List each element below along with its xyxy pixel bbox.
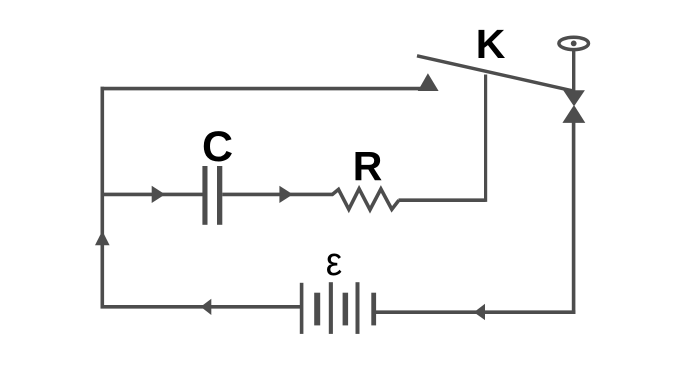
switch contact arrowhead down [563,90,585,106]
switch pivot terminal dot [571,41,577,47]
battery plate 1 long [300,283,304,334]
svg-text:C: C [202,123,233,171]
wire: switch lower vertical [484,75,487,202]
wire: top horizontal [101,87,434,91]
capacitor C left plate [202,166,207,225]
wire: bottom left (battery to node) [101,305,301,309]
resistor R zigzag [332,189,399,210]
switch contact arrowhead up [562,105,585,123]
wire: right vertical [572,123,576,315]
battery plate 4 short [343,293,349,326]
switch K lever [417,56,573,91]
wire: capacitor to resistor [222,193,333,197]
wire: bottom right (corner to battery) [376,310,575,314]
arrowhead right on middle wire after capacitor [279,186,293,203]
svg-text:ε: ε [326,240,343,284]
arrowhead left on bottom left wire [201,299,212,315]
battery plate 3 long [329,282,333,334]
switch pivot terminal stem [572,50,575,91]
wire: middle left (node to capacitor) [102,193,203,197]
battery plate 6 short [371,293,376,326]
wire: left vertical branch [101,87,105,309]
capacitor C right plate [217,166,222,225]
svg-text:K: K [476,21,506,67]
arrowhead up at end of top wire [418,73,439,91]
svg-text:R: R [353,143,383,189]
switch pivot terminal ellipse [559,37,589,49]
arrowhead left on bottom right wire [474,304,485,320]
wire: resistor to corner [399,198,486,202]
battery plate 2 short [314,293,320,326]
arrowhead right on middle wire before capacitor [152,186,165,203]
battery plate 5 long [356,282,360,334]
arrowhead up on left vertical wire [95,231,110,246]
